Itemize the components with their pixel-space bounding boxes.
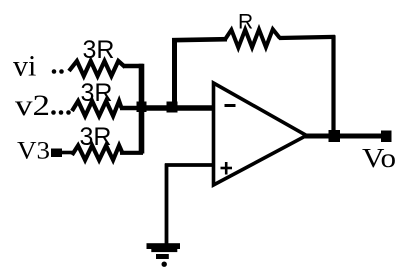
svg-text:3R: 3R <box>83 36 115 64</box>
resistor R2 zigzag <box>72 101 122 116</box>
wire vi dashed dots <box>52 69 64 74</box>
wire input bus vertical <box>139 64 145 154</box>
resistor R zigzag <box>225 29 280 47</box>
wire v2 dashed dots <box>51 110 71 115</box>
svg-text:V3: V3 <box>17 138 50 165</box>
wire feedback top left <box>172 39 227 40</box>
wire non-inverting input horizontal <box>165 163 214 167</box>
wire output <box>305 134 386 139</box>
wire R2 to bus junction <box>120 106 140 110</box>
junction feedback tap dot <box>167 102 178 113</box>
junction output feedback dot <box>329 130 341 142</box>
svg-text:Vo: Vo <box>362 143 396 173</box>
op-amp U1 minus input symbol <box>225 104 236 107</box>
op-amp U1 triangle <box>214 83 307 185</box>
wire feedback top right <box>279 37 335 38</box>
resistor R1 zigzag <box>69 61 125 76</box>
wire feedback left vertical <box>172 38 177 107</box>
wire V3 terminal to R3 <box>60 151 74 155</box>
wire to ground vertical <box>165 164 169 245</box>
wire feedback right vertical <box>331 35 335 137</box>
terminal V3 square <box>51 149 62 158</box>
junction bus dot <box>137 102 147 113</box>
wire bus to inverting input <box>141 105 213 111</box>
op-amp U1 plus input symbol <box>221 162 233 175</box>
terminal Vo square <box>381 131 392 143</box>
svg-text:vi: vi <box>13 50 36 83</box>
ground symbol <box>147 243 181 267</box>
resistor R3 zigzag <box>72 146 122 161</box>
wire R3 to bus <box>120 151 143 155</box>
wire R1 to bus <box>123 64 143 68</box>
svg-text:v2: v2 <box>15 89 50 122</box>
